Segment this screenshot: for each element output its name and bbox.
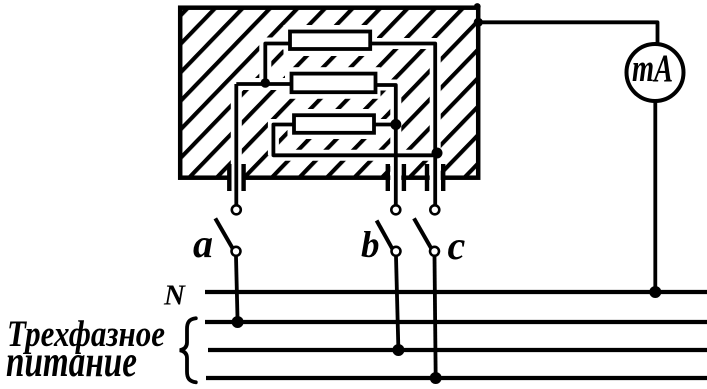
wire node A down through bushing to switch a [234,84,238,205]
phase line 3 [206,376,707,380]
wire R3.left to node C [273,125,435,156]
node A junction dot [261,78,271,88]
wire R1.left to node A [265,44,290,85]
phase line 1 [205,320,707,324]
heating element R2 (middle) [292,74,376,93]
heating element R3 (bottom) [294,115,374,133]
wire R2.right to node B [374,85,396,205]
wire switch b to phase 2 [396,256,398,350]
svg-text:a: a [193,221,213,266]
case tap junction dot [474,18,483,27]
heating element R1 (top) [290,32,370,50]
bushing X3 [427,164,443,191]
junction dot b on phase 2 [392,344,404,356]
case corner junction dot [474,3,481,10]
svg-text:c: c [448,223,466,268]
svg-text:mA: mA [632,47,673,90]
switch b [377,205,401,256]
enclosure E1 (hatched heater case with clearance halos) [180,8,478,200]
wire R1.right to node C [372,44,435,206]
wire case to milliammeter [478,22,657,45]
label pitanie [6,337,137,386]
svg-text:N: N [163,280,186,312]
label b [361,225,380,266]
junction dot c on phase 3 [430,372,442,384]
switch c [414,205,439,256]
wire switch c to phase 3 [435,256,436,378]
bushing X1 [229,164,243,191]
wire node A horizontal to R2.left [236,82,291,86]
svg-text:питание: питание [6,337,137,386]
milliammeter PA1 [627,44,684,101]
svg-text:b: b [361,225,380,266]
junction dot a on phase 1 [232,316,244,328]
label Trekhfaznoe [7,314,165,355]
label N [163,280,186,312]
wire milliammeter to N line [653,101,657,292]
switch a [215,205,241,256]
node B junction dot [390,119,401,130]
junction dot meter on N [649,286,661,298]
wire switch a to phase 1 [236,256,238,322]
phase line 2 [208,348,707,352]
wire R3.right to node B [376,123,396,127]
label c [448,223,466,268]
brace three-phase supply [180,318,196,382]
bushing X2 [388,164,404,191]
node C junction dot [432,148,443,159]
neutral line N [205,290,707,294]
label a [193,221,213,266]
